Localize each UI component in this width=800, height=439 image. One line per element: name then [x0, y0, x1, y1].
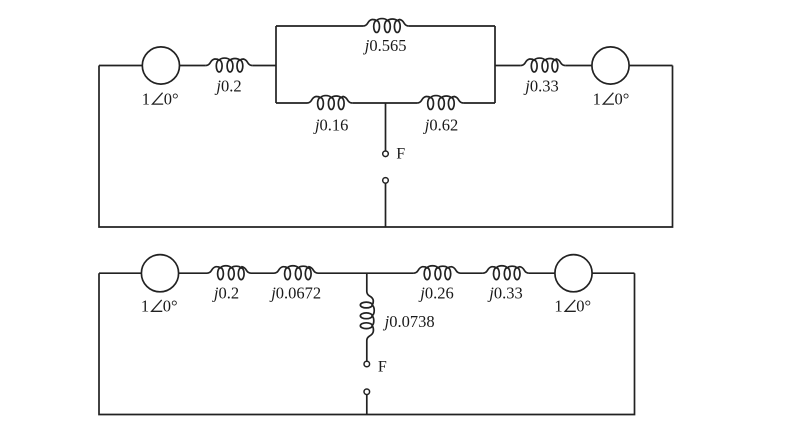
svg-text:j0.2: j0.2 — [212, 283, 239, 302]
svg-text:j0.16: j0.16 — [313, 116, 348, 135]
svg-text:j0.0672: j0.0672 — [269, 283, 321, 302]
svg-text:j0.26: j0.26 — [418, 284, 453, 303]
svg-text:j0.33: j0.33 — [487, 284, 522, 303]
svg-text:1: 1 — [554, 297, 562, 316]
svg-text:1: 1 — [142, 89, 150, 108]
svg-text:0°: 0° — [615, 89, 630, 108]
svg-text:1: 1 — [593, 89, 601, 108]
svg-text:j0.62: j0.62 — [423, 116, 458, 135]
svg-text:j0.565: j0.565 — [363, 36, 407, 55]
svg-text:0°: 0° — [163, 297, 178, 316]
svg-text:0°: 0° — [164, 89, 179, 108]
svg-text:0°: 0° — [576, 297, 591, 316]
svg-text:j0.0738: j0.0738 — [383, 312, 435, 331]
svg-text:1: 1 — [141, 297, 149, 316]
svg-text:j0.2: j0.2 — [214, 76, 241, 95]
svg-text:F: F — [396, 146, 405, 163]
svg-text:j0.33: j0.33 — [523, 76, 558, 95]
svg-text:F: F — [378, 359, 387, 376]
